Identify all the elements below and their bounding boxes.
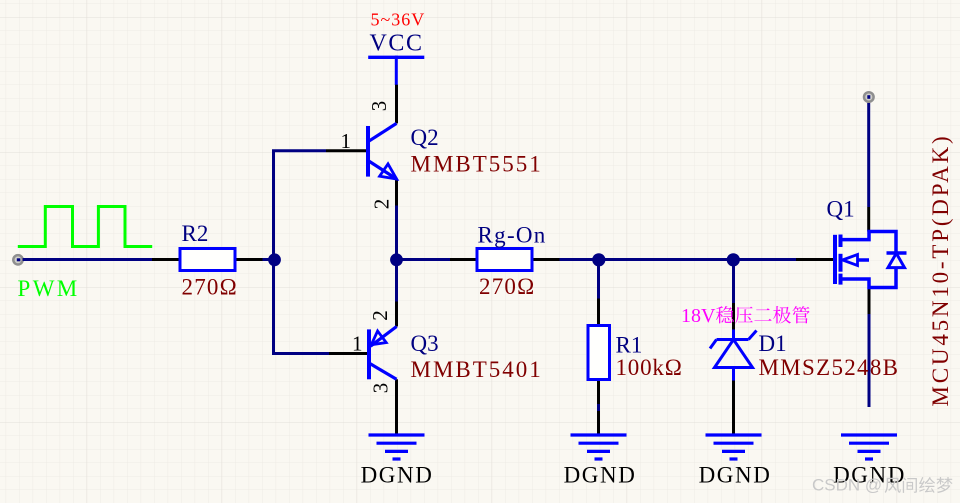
svg-text:MMSZ5248B: MMSZ5248B (759, 355, 900, 380)
ground DGND under Q3 (369, 435, 425, 459)
ground DGND under D1 (706, 435, 762, 459)
port Q1 drain terminal dot (864, 92, 874, 102)
junction node A at rail (268, 253, 281, 266)
svg-text:Q2: Q2 (411, 125, 439, 150)
svg-text:DGND: DGND (699, 463, 772, 488)
svg-text:MCU45N10-TP(DPAK): MCU45N10-TP(DPAK) (928, 134, 953, 407)
svg-text:2: 2 (370, 199, 394, 210)
transistor Q3 PNP (329, 302, 397, 435)
junction D1 node (727, 253, 740, 266)
svg-text:100kΩ: 100kΩ (616, 355, 683, 380)
resistor R1 (588, 299, 610, 435)
svg-text:MMBT5551: MMBT5551 (411, 152, 543, 177)
watermark CSDN (812, 476, 952, 495)
svg-text:270Ω: 270Ω (479, 274, 535, 299)
svg-text:D1: D1 (759, 331, 787, 356)
svg-text:18V: 18V (681, 305, 716, 327)
wire Q1 source to ground (868, 314, 871, 407)
svg-text:MMBT5401: MMBT5401 (411, 357, 543, 382)
svg-text:DGND: DGND (564, 463, 637, 488)
svg-text:PWM: PWM (18, 276, 80, 301)
svg-text:1: 1 (341, 129, 352, 153)
diode D1 zener (710, 303, 757, 434)
junction Q2/Q3 emitter node (390, 253, 403, 266)
junction R1 node (592, 253, 605, 266)
svg-text:3: 3 (369, 383, 393, 394)
label 18V zener note magenta (681, 305, 810, 327)
svg-text:VCC: VCC (370, 31, 424, 57)
transistor Q1 MOSFET (796, 207, 907, 314)
svg-text:1: 1 (352, 332, 363, 356)
signal PWM square wave (18, 207, 152, 247)
svg-text:R2: R2 (182, 221, 209, 246)
wire R2 to node A rail (235, 258, 277, 261)
wire emitter node to Rg-On (397, 258, 451, 261)
svg-text:Q1: Q1 (827, 197, 855, 222)
svg-text:5~36V: 5~36V (371, 10, 426, 30)
svg-text:CSDN @: CSDN @ (812, 476, 882, 495)
wire node to D1 (732, 260, 735, 304)
ground DGND under R1 (571, 435, 627, 459)
svg-text:Rg-On: Rg-On (478, 223, 547, 248)
wire Q1 drain from port (867, 103, 870, 207)
port PWM terminal dot (13, 255, 22, 264)
svg-text:270Ω: 270Ω (182, 275, 238, 300)
wire node to R1 (597, 260, 600, 299)
resistor Rg-On (450, 249, 560, 271)
wire Q2 emitter to Q3 emitter (395, 206, 398, 302)
svg-text:2: 2 (368, 310, 392, 321)
svg-text:3: 3 (367, 101, 391, 112)
transistor Q2 NPN (326, 85, 397, 206)
power port VCC (368, 31, 424, 86)
resistor R2 (152, 249, 263, 271)
svg-text:Q3: Q3 (411, 331, 439, 356)
wire rail to Q2/Q3 bases (274, 151, 330, 354)
wire PWM to R2 (23, 258, 180, 261)
wire Rg-On to Q1 gate (560, 258, 811, 261)
svg-text:DGND: DGND (361, 463, 434, 488)
svg-text:R1: R1 (616, 333, 643, 358)
ground DGND under Q1 (841, 435, 897, 459)
